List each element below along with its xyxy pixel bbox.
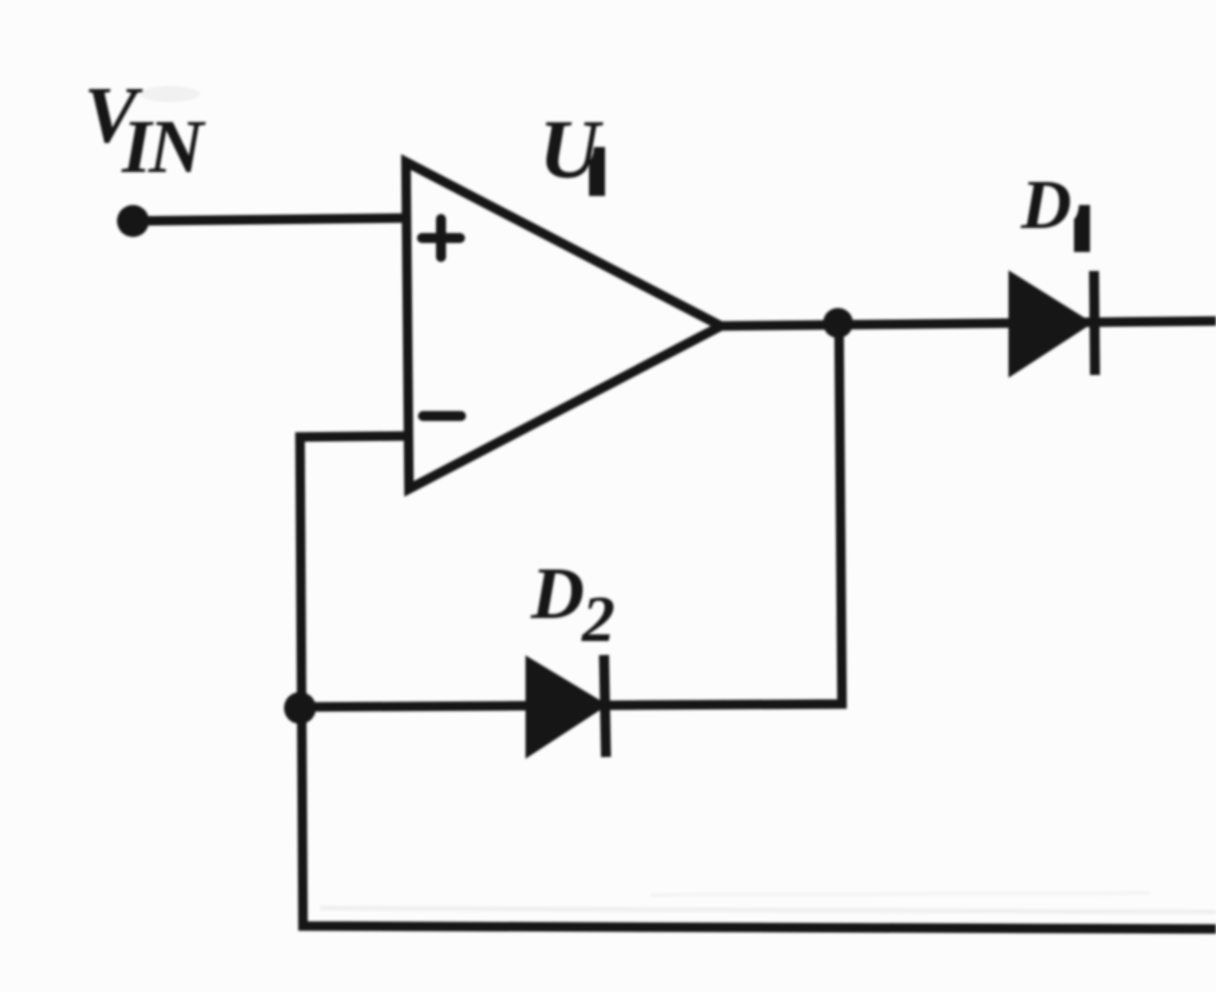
svg-text:IN: IN — [121, 105, 207, 189]
svg-text:2: 2 — [581, 583, 615, 656]
svg-text:D: D — [1020, 167, 1072, 244]
svg-text:D: D — [530, 553, 584, 635]
